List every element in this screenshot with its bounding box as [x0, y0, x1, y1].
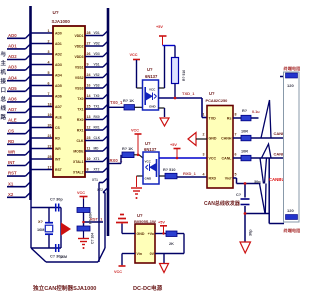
svg-text:+5V: +5V [158, 221, 165, 225]
svg-text:AD4: AD4 [55, 73, 62, 77]
svg-text:7: 7 [235, 133, 237, 137]
svg-text:Vref: Vref [225, 177, 233, 181]
svg-text:GND: GND [145, 177, 153, 181]
svg-text:B0505S-1W: B0505S-1W [134, 219, 156, 224]
svg-text:13: 13 [87, 115, 91, 119]
svg-text:8: 8 [87, 168, 89, 172]
svg-text:R? 510: R? 510 [182, 70, 186, 81]
svg-text:27: 27 [87, 42, 91, 46]
svg-text:U?: U? [137, 213, 143, 218]
svg-text:4: 4 [203, 173, 205, 177]
svg-text:INT: INT [55, 157, 61, 161]
svg-text:AD5: AD5 [8, 86, 17, 91]
svg-text:XTAL2: XTAL2 [73, 170, 84, 174]
svg-text:15: 15 [87, 105, 91, 109]
svg-text:VCC: VCC [130, 53, 138, 57]
svg-text:10R: 10R [241, 150, 248, 154]
svg-text:CANH: CANH [221, 137, 232, 141]
svg-text:AD3: AD3 [8, 65, 17, 70]
svg-text:MD: MD [94, 147, 100, 151]
svg-text:XT1: XT1 [94, 157, 100, 161]
svg-text:1: 1 [203, 113, 205, 117]
svg-text:VDD1: VDD1 [74, 34, 83, 38]
svg-text:30p: 30p [249, 229, 253, 236]
svg-text:RX1: RX1 [94, 126, 100, 130]
svg-text:26: 26 [87, 52, 91, 56]
svg-text:120: 120 [287, 208, 294, 213]
svg-text:GND: GND [149, 105, 157, 109]
svg-text:AD7: AD7 [8, 107, 17, 112]
svg-text:28: 28 [87, 31, 91, 35]
svg-text:与: 与 [1, 50, 7, 58]
svg-text:120: 120 [287, 83, 294, 88]
svg-text:+5V: +5V [156, 25, 163, 29]
svg-text:VCC: VCC [77, 191, 85, 195]
svg-text:6: 6 [235, 153, 237, 157]
svg-text:VDD3: VDD3 [74, 55, 83, 59]
svg-text:接: 接 [1, 77, 7, 85]
svg-text:VCC: VCC [131, 129, 139, 133]
svg-text:RXD: RXD [209, 177, 217, 181]
svg-text:RX0: RX0 [94, 115, 100, 119]
svg-text:2: 2 [203, 133, 205, 137]
svg-text:X1: X1 [8, 181, 14, 186]
svg-text:7: 7 [48, 92, 50, 96]
svg-text:U?: U? [53, 10, 59, 15]
svg-text:AD5: AD5 [55, 84, 62, 88]
svg-text:WR: WR [8, 150, 16, 155]
svg-text:TX1: TX1 [77, 107, 83, 111]
svg-text:6: 6 [48, 81, 50, 85]
svg-text:16: 16 [87, 84, 91, 88]
svg-text:14: 14 [87, 94, 91, 98]
svg-text:AD3: AD3 [55, 63, 62, 67]
svg-text:TX0: TX0 [77, 97, 83, 101]
svg-text:6N137: 6N137 [145, 74, 158, 79]
svg-text:XT1: XT1 [92, 178, 98, 182]
svg-text:VCC: VCC [209, 157, 217, 161]
svg-text:22: 22 [48, 144, 52, 148]
svg-text:CANL: CANL [222, 157, 233, 161]
svg-text:12: 12 [87, 126, 91, 130]
svg-text:R? 510: R? 510 [163, 168, 175, 172]
svg-text:6N137: 6N137 [144, 147, 157, 152]
svg-text:VD1: VD1 [94, 31, 100, 35]
svg-text:U?: U? [209, 91, 215, 96]
svg-text:GND: GND [137, 232, 145, 236]
svg-text:5: 5 [48, 71, 50, 75]
svg-text:DC-DC电源: DC-DC电源 [133, 284, 163, 292]
svg-text:机: 机 [0, 68, 7, 76]
svg-text:AD1: AD1 [8, 44, 17, 49]
svg-text:XT2: XT2 [97, 188, 103, 192]
svg-text:0V: 0V [150, 252, 155, 256]
svg-text:+5V: +5V [170, 143, 177, 147]
svg-text:17: 17 [48, 165, 52, 169]
svg-text:C?: C? [236, 193, 242, 197]
svg-text:R? 1K: R? 1K [122, 147, 133, 151]
svg-text:2: 2 [48, 39, 50, 43]
svg-text:CAN总线收发器: CAN总线收发器 [204, 200, 241, 207]
svg-text:11: 11 [87, 147, 91, 151]
svg-text:AD1: AD1 [55, 42, 62, 46]
svg-text:X?: X? [38, 220, 44, 224]
svg-text:1: 1 [48, 29, 50, 33]
svg-text:AD4: AD4 [8, 75, 17, 80]
svg-text:Vin: Vin [137, 252, 143, 256]
svg-text:24: 24 [87, 73, 91, 77]
svg-text:AD2: AD2 [8, 54, 17, 59]
svg-text:GND: GND [209, 137, 217, 141]
svg-text:U?: U? [145, 141, 151, 146]
svg-text:10R: 10R [241, 130, 248, 134]
svg-text:C? 30p: C? 30p [50, 198, 63, 202]
svg-text:VCC: VCC [149, 88, 156, 92]
svg-text:VSS3: VSS3 [75, 86, 84, 90]
svg-text:口: 口 [1, 87, 7, 94]
svg-text:3: 3 [203, 153, 205, 157]
svg-text:RXD_1: RXD_1 [183, 171, 197, 176]
svg-text:2K: 2K [169, 242, 174, 246]
svg-text:SJA1000: SJA1000 [52, 19, 71, 24]
svg-text:总: 总 [1, 95, 7, 103]
svg-text:TXD_1: TXD_1 [182, 91, 195, 96]
svg-text:9: 9 [87, 63, 89, 67]
svg-text:R? 10K: R? 10K [89, 212, 93, 224]
svg-text:CS: CS [55, 126, 60, 130]
svg-text:Rs: Rs [227, 117, 232, 121]
svg-text:20: 20 [48, 123, 52, 127]
svg-text:RD: RD [8, 139, 14, 144]
svg-text:VD2: VD2 [94, 42, 100, 46]
svg-text:19: 19 [48, 113, 52, 117]
svg-text:路: 路 [1, 113, 7, 121]
svg-text:PCA82C250: PCA82C250 [206, 98, 228, 103]
svg-text:TX1: TX1 [94, 105, 100, 109]
svg-text:AD2: AD2 [55, 52, 62, 56]
svg-text:21: 21 [48, 134, 52, 138]
svg-text:0.1u: 0.1u [252, 110, 260, 114]
svg-text:VSS2: VSS2 [75, 76, 84, 80]
svg-text:RD: RD [55, 136, 60, 140]
svg-text:WR: WR [55, 147, 61, 151]
svg-text:终端电阻: 终端电阻 [284, 65, 301, 72]
svg-text:RX0: RX0 [77, 118, 84, 122]
svg-text:VSS1: VSS1 [75, 65, 84, 69]
svg-text:16M: 16M [37, 228, 44, 232]
svg-text:MODE: MODE [73, 149, 84, 153]
svg-text:XT2: XT2 [94, 168, 100, 172]
svg-text:16M: 16M [60, 255, 67, 259]
svg-text:10: 10 [87, 157, 91, 161]
svg-text:XTAL1: XTAL1 [73, 160, 84, 164]
svg-text:+Vo: +Vo [148, 232, 155, 236]
svg-text:VS1: VS1 [94, 63, 100, 67]
svg-text:30p: 30p [254, 180, 261, 184]
svg-text:TX0: TX0 [94, 94, 100, 98]
svg-text:INT: INT [8, 160, 15, 165]
svg-text:VCC: VCC [114, 270, 122, 274]
svg-text:4: 4 [48, 60, 50, 64]
svg-text:RST: RST [55, 168, 63, 172]
svg-text:23: 23 [87, 136, 91, 140]
svg-text:CLK: CLK [77, 139, 85, 143]
svg-text:U?: U? [147, 67, 153, 72]
svg-text:VD3: VD3 [94, 52, 100, 56]
svg-text:VDD2: VDD2 [74, 44, 83, 48]
svg-text:独立CAN控制器SJA1000: 独立CAN控制器SJA1000 [32, 284, 96, 292]
svg-text:VCC: VCC [145, 160, 152, 164]
svg-text:18: 18 [48, 102, 52, 106]
svg-text:线: 线 [1, 104, 7, 112]
svg-text:8: 8 [235, 113, 237, 117]
svg-text:VS2: VS2 [94, 73, 100, 77]
svg-text:X2: X2 [8, 192, 14, 197]
svg-text:主: 主 [1, 59, 7, 67]
svg-text:3: 3 [48, 50, 50, 54]
svg-text:AD6: AD6 [55, 94, 62, 98]
svg-text:R? 1K: R? 1K [123, 99, 134, 103]
svg-text:RX1: RX1 [77, 128, 84, 132]
svg-text:R?: R? [242, 109, 248, 113]
svg-text:TX0_1: TX0_1 [110, 100, 123, 105]
svg-text:VS3: VS3 [94, 84, 100, 88]
svg-text:5: 5 [235, 173, 237, 177]
svg-text:C? 104: C? 104 [91, 233, 95, 244]
svg-text:CLK: CLK [94, 136, 101, 140]
svg-text:ALE: ALE [55, 115, 63, 119]
svg-text:25: 25 [48, 155, 52, 159]
svg-text:终端电阻: 终端电阻 [284, 227, 301, 234]
svg-text:ALE: ALE [8, 118, 17, 123]
svg-text:AD0: AD0 [8, 33, 17, 38]
svg-text:AD7: AD7 [55, 105, 62, 109]
svg-text:TXD: TXD [209, 117, 217, 121]
svg-text:AD0: AD0 [55, 31, 62, 35]
svg-text:RST: RST [8, 171, 17, 176]
svg-text:CS: CS [8, 128, 14, 133]
svg-text:AD6: AD6 [8, 97, 17, 102]
